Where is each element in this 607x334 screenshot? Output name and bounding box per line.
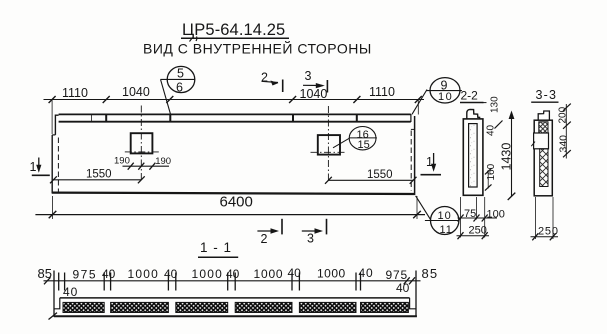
svg-text:1040: 1040 <box>122 85 150 99</box>
tick 418 <box>415 96 422 103</box>
svg-text:250: 250 <box>538 226 559 238</box>
svg-text:1: 1 <box>426 155 433 169</box>
svg-text:10: 10 <box>438 91 453 103</box>
svg-text:190: 190 <box>114 156 130 167</box>
1-1 dimension line <box>44 280 421 282</box>
top flange band top line <box>59 113 411 115</box>
2-2 inner slot <box>469 124 478 187</box>
1-1 left end face <box>53 271 55 317</box>
extension line right <box>417 100 419 115</box>
svg-text:1 - 1: 1 - 1 <box>200 240 232 255</box>
right band end edge <box>410 114 412 122</box>
svg-text:250: 250 <box>469 225 487 237</box>
svg-text:40: 40 <box>396 281 410 295</box>
1-1 hatch segment 1 <box>63 302 104 312</box>
section mark 2 top <box>261 71 283 93</box>
svg-text:130: 130 <box>490 96 501 113</box>
3-3 top hook bump <box>538 111 549 120</box>
right hidden line <box>410 131 412 191</box>
3-3 dim 200/340 vertical <box>558 104 571 159</box>
svg-text:1110: 1110 <box>369 85 395 99</box>
svg-text:ВИД С ВНУТРЕННЕЙ СТОРОНЫ: ВИД С ВНУТРЕННЕЙ СТОРОНЫ <box>143 40 372 57</box>
svg-text:40: 40 <box>102 267 116 281</box>
svg-text:1430: 1430 <box>500 143 514 171</box>
svg-text:5: 5 <box>177 67 184 81</box>
svg-text:3: 3 <box>305 69 312 83</box>
svg-text:2: 2 <box>261 71 268 85</box>
3-3 outer profile <box>534 120 552 196</box>
svg-text:2: 2 <box>261 232 268 246</box>
1-1 right step <box>410 298 416 309</box>
3-3 lower hatched column <box>540 149 548 187</box>
1-1 right end face <box>415 271 417 317</box>
3-3 opening notch <box>534 133 549 149</box>
2-2 dim 40 and 130 rotated labels <box>483 96 503 136</box>
svg-text:190: 190 <box>155 156 171 167</box>
svg-text:1000: 1000 <box>317 267 346 281</box>
opening O2 square <box>318 135 340 155</box>
1-1 bottom left flick <box>49 313 58 320</box>
svg-text:1550: 1550 <box>86 169 112 181</box>
opening O1 vertical centerline <box>140 106 142 181</box>
svg-text:975: 975 <box>386 268 408 282</box>
band divider rib thin <box>91 114 93 121</box>
svg-text:1: 1 <box>30 160 37 174</box>
left step <box>52 134 55 136</box>
svg-text:3: 3 <box>307 232 314 246</box>
title: view caption <box>143 40 372 57</box>
svg-text:1550: 1550 <box>367 169 393 181</box>
svg-text:1040: 1040 <box>300 87 328 101</box>
1-1 hatch segment 5 <box>299 302 356 312</box>
svg-text:40: 40 <box>226 267 240 281</box>
svg-text:85: 85 <box>422 266 439 281</box>
3-3 notch tick <box>531 142 535 147</box>
left lower edge <box>51 135 53 194</box>
tick 170 <box>166 96 173 103</box>
section mark 3 bottom <box>302 219 327 246</box>
3-3 upper hatched block <box>539 122 548 133</box>
svg-text:1000: 1000 <box>254 267 284 281</box>
2-2 dim 75/100 line <box>458 217 498 219</box>
band divider rib 2 <box>169 114 171 123</box>
opening O2 vertical centerline <box>327 106 329 181</box>
svg-text:ЦР5-64.14.25: ЦР5-64.14.25 <box>182 21 285 39</box>
tick 106 <box>103 96 110 103</box>
svg-text:40: 40 <box>63 285 78 299</box>
section mark 2 bottom <box>257 219 282 246</box>
section mark 1 left <box>30 158 50 176</box>
2-2 top hook bump <box>467 109 480 119</box>
section 1-1 title <box>198 240 238 257</box>
2-2 dim 1430 vertical <box>500 111 516 201</box>
section 3-3 title <box>531 88 558 102</box>
svg-text:1000: 1000 <box>128 267 160 281</box>
svg-text:160: 160 <box>486 163 497 180</box>
left upper edge <box>55 115 58 135</box>
band divider rib 1 <box>105 114 107 123</box>
svg-text:6: 6 <box>176 81 183 95</box>
title: drawing number <box>181 21 289 41</box>
left hidden line <box>57 138 59 192</box>
1-1 hatch segment 2 <box>111 302 169 312</box>
opening O1 horizontal centerline <box>125 151 161 153</box>
section 2-2 title <box>460 89 484 103</box>
callout circle 5/6 <box>161 66 195 113</box>
section mark 3 top <box>303 69 327 93</box>
svg-text:6400: 6400 <box>220 194 253 211</box>
1-1 hatch segment 3 <box>176 302 228 312</box>
top dimension line <box>44 99 425 101</box>
svg-text:200: 200 <box>558 106 569 123</box>
dimension 6400 <box>35 194 425 220</box>
dimension 1550 left <box>50 169 145 184</box>
svg-text:40: 40 <box>486 124 497 136</box>
svg-text:85: 85 <box>38 266 52 281</box>
svg-text:3-3: 3-3 <box>536 88 558 102</box>
2-2 outer profile <box>463 119 483 195</box>
bottom edge <box>52 193 415 194</box>
extension line left <box>51 100 53 135</box>
svg-text:340: 340 <box>558 135 570 153</box>
svg-text:975: 975 <box>73 268 98 282</box>
svg-text:75: 75 <box>464 208 476 220</box>
tick 52 <box>49 96 56 103</box>
opening O1 square <box>131 133 153 153</box>
tick 357 <box>353 96 360 103</box>
2-2 bottom dims extension lines <box>461 197 485 238</box>
callout circle 10/11 <box>416 196 460 236</box>
1-1 bottom edge <box>54 315 417 317</box>
band divider rib 4 <box>356 114 358 123</box>
right step <box>411 128 415 130</box>
2-2 dim 250 line <box>457 235 490 237</box>
1-1 left step <box>54 298 60 309</box>
svg-text:40: 40 <box>288 266 302 280</box>
2-2 dim 160 <box>485 163 497 190</box>
svg-text:100: 100 <box>487 209 505 221</box>
svg-text:10: 10 <box>438 210 452 222</box>
callout circle 16/15 <box>333 127 377 151</box>
dimension 190+190 under opening O1 <box>114 156 171 170</box>
1-1 hatch segment 6 <box>361 302 409 312</box>
section mark 1 right <box>421 153 442 175</box>
top flange band bottom line <box>59 121 411 123</box>
svg-text:15: 15 <box>358 139 370 151</box>
svg-text:11: 11 <box>440 224 453 236</box>
1-1 labels row <box>38 266 439 299</box>
1-1 ticks <box>44 273 415 291</box>
right outer edge <box>414 116 416 195</box>
opening O2 horizontal centerline <box>311 151 347 153</box>
band divider rib 3 <box>292 114 294 123</box>
svg-text:40: 40 <box>359 266 374 280</box>
dimension 1550 right <box>325 169 417 184</box>
3-3 dim 250 bottom <box>531 197 559 240</box>
svg-text:1000: 1000 <box>192 267 224 281</box>
tick 292 <box>289 96 296 103</box>
svg-text:2-2: 2-2 <box>461 89 479 103</box>
1-1 top surface line <box>60 297 410 299</box>
callout circle 9/10 <box>412 78 462 115</box>
1-1 hatch segment 4 <box>235 302 292 312</box>
svg-text:1110: 1110 <box>62 86 88 100</box>
svg-text:40: 40 <box>164 267 178 281</box>
